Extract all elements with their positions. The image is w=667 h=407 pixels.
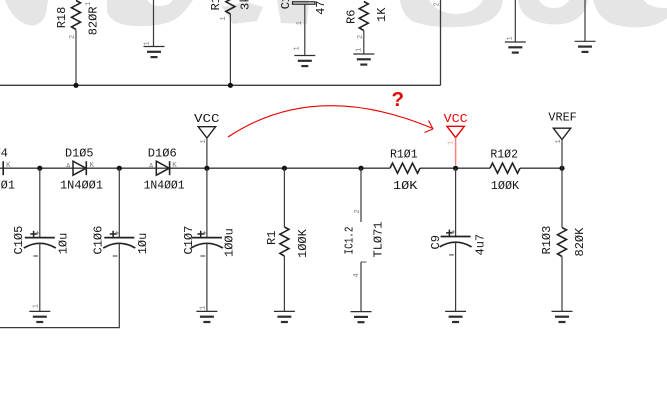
- resistor R103: [561, 168, 563, 227]
- svg-text:R6: R6: [345, 10, 359, 24]
- svg-text:2: 2: [434, 2, 442, 6]
- watermark letter 7: [593, 0, 667, 27]
- ground (below IC1.2): [351, 312, 372, 323]
- svg-text:1ØØu: 1ØØu: [223, 228, 237, 257]
- resistor R102: [490, 163, 520, 173]
- wire VREF stub: [561, 140, 563, 169]
- svg-text:C1: C1: [279, 0, 293, 9]
- svg-text:C1Ø5: C1Ø5: [12, 226, 26, 255]
- svg-text:1ØØK: 1ØØK: [296, 228, 310, 258]
- supply VCC (red annotation): [447, 126, 464, 137]
- svg-text:D1Ø4: D1Ø4: [0, 147, 8, 161]
- wire vertical riser: [440, 0, 442, 85]
- svg-text:1: 1: [220, 16, 228, 20]
- svg-text:A: A: [66, 163, 71, 171]
- resistor R101: [390, 163, 420, 173]
- svg-text:1Øu: 1Øu: [57, 233, 71, 255]
- capacitor C107: [206, 168, 208, 237]
- svg-text:R1Ø1: R1Ø1: [390, 148, 418, 162]
- ground (below R1): [274, 311, 295, 322]
- op-amp IC1.2 power pins: [360, 168, 362, 222]
- svg-text:C1Ø7: C1Ø7: [182, 226, 196, 255]
- svg-text:1N4ØØ1: 1N4ØØ1: [144, 179, 185, 193]
- watermark letter 5: [400, 0, 503, 27]
- resistor R18: [72, 1, 81, 30]
- svg-text:R1Ø3: R1Ø3: [540, 226, 554, 255]
- wire C105 to ground: [39, 243, 41, 311]
- ground (below R103): [552, 311, 573, 322]
- svg-text:82ØK: 82ØK: [573, 227, 587, 257]
- wire R6 to ground: [363, 31, 365, 55]
- svg-text:4u7: 4u7: [474, 234, 488, 256]
- wire main bus: [0, 167, 562, 169]
- svg-text:D1Ø6: D1Ø6: [148, 147, 177, 161]
- svg-text:VCC: VCC: [444, 112, 468, 126]
- wire VCC stub: [206, 138, 208, 168]
- junction node (x=361): [358, 166, 363, 171]
- svg-text:R15: R15: [209, 0, 223, 11]
- resistor R6: [359, 2, 368, 31]
- ground (top, x=152): [153, 0, 155, 47]
- wire C9 to ground: [455, 242, 457, 311]
- wire C106 down and left: [0, 243, 119, 328]
- svg-text:1N4ØØ1: 1N4ØØ1: [0, 179, 15, 193]
- svg-text:1K: 1K: [375, 7, 389, 22]
- ground (top, x=515): [514, 0, 516, 42]
- wire IC pin4 to ground: [360, 262, 362, 312]
- wire R1 to ground: [283, 256, 285, 311]
- wire top bus: [0, 84, 441, 86]
- svg-text:1: 1: [144, 41, 152, 45]
- svg-text:1N4ØØ1: 1N4ØØ1: [60, 179, 103, 193]
- svg-text:D1Ø5: D1Ø5: [65, 147, 94, 161]
- svg-text:?: ?: [392, 89, 405, 111]
- svg-text:TLØ71: TLØ71: [372, 221, 386, 257]
- watermark letter 4: [277, 0, 309, 24]
- svg-text:C1Ø6: C1Ø6: [92, 226, 106, 255]
- watermark letter 6: [518, 0, 588, 25]
- svg-text:IC1.2: IC1.2: [343, 227, 357, 255]
- junction node (x=284.4): [282, 166, 287, 171]
- svg-text:1: 1: [200, 306, 208, 310]
- ground (below C105): [29, 311, 50, 322]
- diode D105: [73, 161, 86, 175]
- svg-text:1: 1: [294, 46, 302, 50]
- svg-text:C9: C9: [429, 235, 443, 249]
- svg-text:1: 1: [33, 304, 41, 308]
- svg-text:1: 1: [448, 141, 456, 145]
- ground (below R6): [353, 54, 374, 65]
- svg-text:1ØØK: 1ØØK: [491, 179, 520, 193]
- junction node (x=39.8): [37, 166, 42, 171]
- red arrow arc: [228, 106, 433, 137]
- red arrowhead: [425, 121, 434, 133]
- pin 4 tick: [361, 261, 367, 263]
- wire R103 to ground: [561, 257, 563, 312]
- capacitor C106: [118, 168, 120, 237]
- svg-text:3k3: 3k3: [239, 0, 253, 10]
- svg-text:2: 2: [354, 209, 362, 213]
- junction node (x=562): [559, 166, 564, 171]
- svg-text:VCC: VCC: [194, 112, 220, 126]
- svg-text:R1Ø2: R1Ø2: [490, 148, 518, 162]
- capacitor C9: [455, 168, 457, 236]
- svg-text:1ØK: 1ØK: [393, 179, 418, 193]
- watermark letter 1: [5, 0, 48, 26]
- wire R18 to bus: [75, 30, 77, 86]
- ground (below C9): [445, 311, 466, 322]
- svg-text:4: 4: [353, 273, 361, 277]
- supply VREF: [553, 128, 570, 139]
- svg-text:1: 1: [507, 36, 515, 40]
- ground (top, x=585): [584, 0, 586, 41]
- svg-text:1: 1: [85, 2, 93, 6]
- svg-text:R18: R18: [55, 7, 69, 29]
- diode D106: [156, 161, 169, 175]
- capacitor C1 (cut at top): [293, 2, 316, 4]
- wire red VCC stub: [455, 138, 457, 165]
- svg-text:1: 1: [296, 21, 304, 25]
- svg-text:K: K: [172, 162, 177, 170]
- resistor R15 (cut at top): [226, 0, 235, 14]
- svg-text:1Øu: 1Øu: [136, 233, 150, 255]
- junction R15/bus: [228, 83, 233, 88]
- junction node (x=455.6): [453, 166, 458, 171]
- svg-text:47: 47: [314, 0, 328, 14]
- diode D104 (cut at left): [2, 161, 4, 175]
- junction node (x=206.9): [204, 166, 209, 171]
- svg-text:K: K: [90, 162, 95, 170]
- watermark letter 3: [222, 2, 263, 24]
- supply VCC (black): [198, 127, 215, 138]
- capacitor C105: [39, 168, 41, 237]
- wire R15 to bus: [229, 14, 231, 85]
- svg-text:82ØR: 82ØR: [87, 6, 101, 35]
- svg-text:1: 1: [356, 48, 364, 52]
- resistor R1: [283, 168, 285, 227]
- svg-text:VREF: VREF: [548, 111, 576, 125]
- junction node (x=119.3): [117, 166, 122, 171]
- ground (below C1): [294, 56, 315, 67]
- wire C107 to ground: [206, 243, 208, 311]
- watermark letter 2: [107, 0, 193, 26]
- svg-text:A: A: [149, 163, 154, 171]
- ground (below C107): [196, 311, 217, 322]
- svg-text:K: K: [6, 162, 11, 170]
- wire C1 to ground: [304, 4, 306, 55]
- svg-text:R1: R1: [265, 231, 279, 245]
- junction R18/bus: [73, 83, 78, 88]
